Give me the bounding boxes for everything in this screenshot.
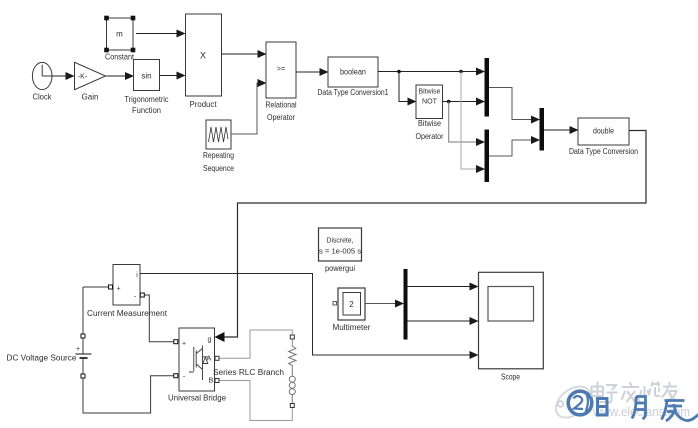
svg-text:Operator: Operator [267, 113, 295, 122]
svg-text:Sequence: Sequence [203, 164, 234, 173]
watermark blue char yue [632, 397, 646, 420]
wire DC Voltage Source plus to Current Measurement plus [83, 285, 113, 289]
block Clock [32, 62, 52, 101]
block Repeating Sequence [203, 120, 234, 173]
watermark gray char you [662, 382, 678, 401]
svg-text:+: + [76, 346, 80, 353]
svg-text:NOT: NOT [422, 97, 437, 106]
wire Product to Relational Operator [222, 53, 266, 55]
svg-text:powergui: powergui [325, 264, 355, 273]
svg-text:Product: Product [190, 100, 218, 109]
block Relational Operator [266, 42, 297, 122]
watermark gray char dian [592, 382, 606, 403]
wire Mux1 to Mux3 [489, 88, 539, 120]
svg-text:+: + [182, 341, 186, 348]
svg-text:>=: >= [277, 66, 285, 73]
wire Series RLC Branch bottom to Universal Bridge B [215, 379, 292, 421]
svg-text:Relational: Relational [266, 101, 297, 110]
svg-text:Clock: Clock [33, 93, 53, 102]
wire Mux2 to Mux3 [489, 140, 539, 156]
svg-text:DC Voltage Source: DC Voltage Source [7, 354, 78, 363]
block Current Measurement [87, 265, 168, 319]
svg-text:s = 1e-005 s: s = 1e-005 s [319, 247, 361, 256]
wire Bitwise Operator to Mux1 second input [443, 101, 485, 103]
wire Demux out1 to Scope input 1 [408, 286, 478, 288]
junction node on boolean wire at x399 [397, 70, 401, 74]
block Bitwise Operator (Bitwise NOT) [416, 85, 444, 141]
wire Data Type Conversion1 to Mux1 [378, 71, 484, 73]
svg-text:m: m [116, 30, 123, 39]
svg-text:Current Measurement: Current Measurement [87, 309, 168, 318]
svg-text:Data Type Conversion: Data Type Conversion [569, 147, 638, 156]
wire Constant to Product [136, 33, 185, 35]
block Universal Bridge [168, 328, 227, 403]
wire Demux out2 to Scope input 2 [408, 320, 478, 322]
demux Demux (black bar) [404, 269, 408, 340]
block Product [186, 14, 222, 109]
svg-text:Function: Function [132, 106, 161, 115]
svg-text:Constant: Constant [105, 53, 135, 62]
wire Universal Bridge A to Series RLC Branch top [215, 330, 292, 360]
svg-text:double: double [593, 127, 614, 136]
wire Current Measurement minus to Universal Bridge plus [140, 293, 178, 344]
watermark blue char chen [662, 401, 698, 422]
wire Data Type Conversion feedback loop to Universal Bridge gate [215, 131, 647, 343]
wire branch boolean down to Mux2 second input [461, 72, 484, 170]
wire Gain to Trigonometric Function [106, 75, 134, 77]
watermark gray char zi [606, 385, 618, 403]
svg-text:boolean: boolean [340, 68, 366, 77]
IGBT and diode icon inside Universal Bridge [189, 346, 203, 381]
wire Current Measurement i output to Scope input 3 [140, 274, 478, 356]
svg-text:B: B [209, 378, 214, 385]
wire Multimeter to Demux [365, 303, 403, 305]
svg-text:Series RLC Branch: Series RLC Branch [213, 368, 284, 377]
constant block Constant (selected, value m) [104, 16, 135, 62]
watermark blue char ri [598, 399, 608, 416]
wire branch to Bitwise Operator input [399, 72, 416, 102]
wire Universal Bridge minus to DC Voltage Source minus [83, 374, 178, 413]
block powergui (Discrete) [319, 228, 362, 273]
svg-text:Scope: Scope [501, 373, 520, 382]
junction node at Bitwise output x449 [447, 100, 451, 104]
watermark logo orbit swoosh [550, 380, 596, 424]
svg-text:Data Type Conversion1: Data Type Conversion1 [318, 88, 389, 97]
watermark gray char shao [640, 382, 660, 397]
watermark logo blue ring with 2 [568, 391, 592, 415]
gain block Gain [75, 62, 106, 101]
svg-text:+: + [116, 286, 120, 293]
block Scope [479, 272, 544, 381]
wire Trigonometric Function to Product [160, 75, 185, 77]
watermark gray url www.elecfans.com [592, 404, 690, 419]
block Data Type Conversion (double) [569, 118, 638, 156]
junction node on boolean wire at x461 [459, 70, 463, 74]
mux Mux2 (bottom black bar) [485, 130, 490, 183]
wire Mux3 to Data Type Conversion [544, 129, 578, 131]
wire Clock to Gain [52, 75, 74, 77]
mux Mux3 (black bar) [540, 108, 545, 151]
block Data Type Conversion1 (boolean) [318, 57, 389, 97]
block Trigonometric Function (sin) [125, 60, 169, 116]
svg-text:Trigonometric: Trigonometric [125, 95, 169, 104]
wire Repeating Sequence to Relational Operator [231, 83, 266, 134]
svg-text:-K-: -K- [78, 74, 88, 81]
svg-text:2: 2 [349, 300, 354, 309]
svg-text:X: X [200, 51, 206, 61]
mux Mux1 (top black bar) [485, 58, 490, 117]
wire branch Bitwise output down to Mux2 first input [449, 102, 484, 143]
battery DC Voltage Source [7, 287, 92, 413]
wire Relational Operator to Data Type Conversion1 [296, 71, 328, 73]
resistor and inductor Series RLC Branch [213, 335, 296, 408]
svg-text:Multimeter: Multimeter [333, 323, 371, 332]
svg-text:Universal Bridge: Universal Bridge [168, 394, 227, 403]
svg-text:Bitwise: Bitwise [418, 119, 441, 128]
svg-text:Operator: Operator [416, 132, 444, 141]
block Multimeter [333, 288, 371, 332]
watermark gray char fa [622, 382, 641, 402]
svg-text:sin: sin [141, 72, 151, 81]
svg-text:g: g [208, 337, 212, 344]
svg-text:Bitwise: Bitwise [419, 87, 441, 96]
svg-text:Discrete,: Discrete, [327, 236, 354, 245]
svg-text:Repeating: Repeating [203, 151, 234, 160]
svg-text:Gain: Gain [82, 93, 99, 102]
